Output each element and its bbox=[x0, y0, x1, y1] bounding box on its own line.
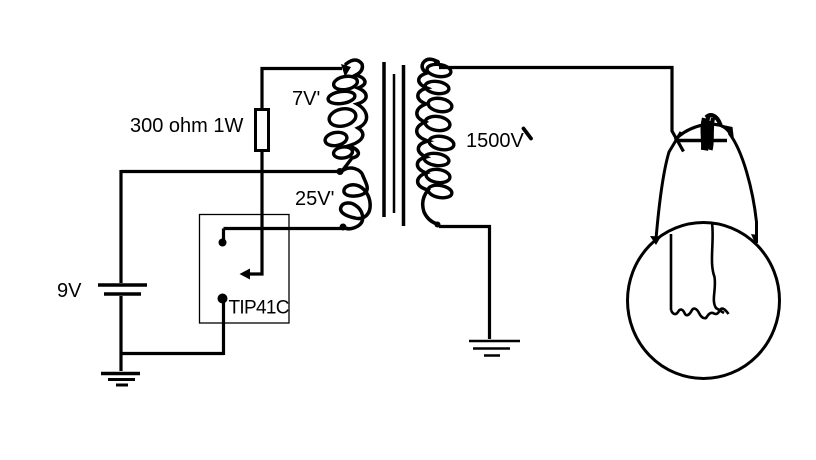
svg-text:25V': 25V' bbox=[295, 188, 334, 210]
svg-text:300 ohm 1W: 300 ohm 1W bbox=[130, 115, 244, 137]
svg-text:9V: 9V bbox=[57, 280, 82, 302]
svg-text:7V': 7V' bbox=[292, 88, 320, 110]
svg-text:1500V: 1500V bbox=[466, 130, 524, 152]
svg-text:TIP41C: TIP41C bbox=[229, 298, 289, 319]
